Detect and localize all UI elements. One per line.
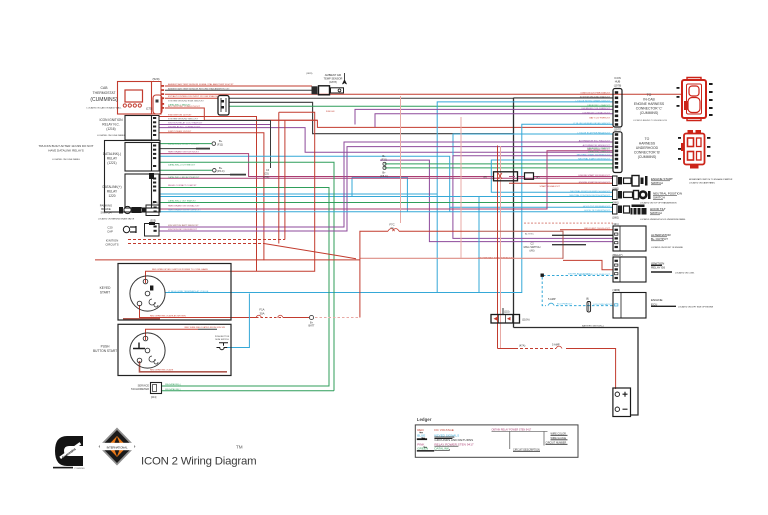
svg-text:IGNITION RELAY COIL 97AW/CKT: IGNITION RELAY COIL 97AW/CKT [168,122,203,125]
svg-text:NEUTRAL POSITION SWITCH RTN/CK: NEUTRAL POSITION SWITCH RTN/CKT [570,194,611,197]
ignition relay labels [613,253,696,275]
svg-text:RELAY CONTACT COM/CKT: RELAY CONTACT COM/CKT [168,184,197,187]
svg-text:DATALINK(+) 98A/CKT: DATALINK(+) 98A/CKT [587,104,610,107]
svg-text:(1882): (1882) [612,217,619,220]
red vertical through 110A connector [497,146,499,349]
svg-text:CIRCUITS: CIRCUITS [105,243,118,247]
mag switch labels [524,242,541,253]
svg-text:Ledger: Ledger [417,417,432,422]
svg-text:RED: RED [417,428,424,432]
svg-text:PARK BRAKE SWITCH IN/CKT: PARK BRAKE SWITCH IN/CKT [168,151,199,154]
svg-text:(P): (P) [536,175,540,179]
svg-text:(110): (110) [504,311,510,314]
svg-text:(1829): (1829) [306,73,313,75]
svg-text:SWITCH: SWITCH [650,211,662,215]
alternator labels [613,222,684,249]
svg-text:LOCATED ON FUSE PANEL: LOCATED ON FUSE PANEL [52,158,81,161]
B+ F11 terminal [212,142,216,146]
svg-text:HAVE DATALINK RELAYS: HAVE DATALINK RELAYS [48,149,83,153]
push start switch face [130,333,165,368]
red connector drawing B [681,130,705,169]
wire red relayNC bottom drop [159,133,264,260]
svg-text:PUSH: PUSH [101,345,111,349]
wire red engine start [509,182,613,184]
svg-text:START: START [100,291,110,295]
svg-text:IN-CAB: IN-CAB [643,98,655,102]
cyan dashed ignition relay [543,275,613,277]
svg-text:DATALINK(-) 98B/CKT: DATALINK(-) 98B/CKT [588,150,611,153]
wire red thermostat pin1 to ambient sensor [165,85,312,87]
svg-text:DATALINK(+) RELAY PWR/CKT: DATALINK(+) RELAY PWR/CKT [168,143,200,146]
svg-text:IGN RELAY CONTACT/CKT: IGN RELAY CONTACT/CKT [583,111,611,114]
svg-text:TM: TM [236,445,243,450]
strip2 right labels [634,137,661,159]
svg-text:IGN RELAY COIL 97AW/CKT: IGN RELAY COIL 97AW/CKT [581,107,610,110]
parking brake cyan [159,211,450,213]
keyed red bottom to fuse and BATT [140,305,257,318]
datalink plus relay [125,174,159,208]
svg-text:TRUCKS BUILT AFTER 11/1/99 DO: TRUCKS BUILT AFTER 11/1/99 DO NOT [38,144,93,148]
svg-text:AMBIENT AIR: AMBIENT AIR [325,73,342,77]
svg-text:CAB: CAB [101,86,109,90]
black stub mag switch [552,244,586,246]
wire green datalink- terminal [159,143,212,145]
wire cyan strip1 from vertical x437 [160,102,613,293]
5 AMP fuse bump bottom [556,346,562,348]
svg-text:RED WIRE RELOCATE: RED WIRE RELOCATE [150,369,174,372]
icon ignition relay box [125,116,159,141]
svg-text:HUB: HUB [615,80,621,84]
svg-text:PUSH BUTTON: PUSH BUTTON [215,336,230,338]
svg-text:LOCATED IN CAB ON BACK WALL: LOCATED IN CAB ON BACK WALL [86,107,122,110]
engine start switch symbol [613,176,648,187]
service tachometer [131,384,149,392]
svg-text:ALT EXC: ALT EXC [525,233,534,236]
svg-text:LOCATED UNDER AT HOOD UNDERSID: LOCATED UNDER AT HOOD UNDERSIDE PANEL [640,218,687,221]
svg-text:GREEN: GREEN [417,447,428,451]
svg-text:HARNESS: HARNESS [639,142,656,146]
svg-text:(CUMMINS): (CUMMINS) [638,155,656,159]
svg-text:(110A): (110A) [522,318,530,322]
parking brake labels [98,204,135,221]
push start red top [146,329,199,340]
wire purple strip2 row3 [380,160,613,242]
battery [613,388,631,417]
svg-text:MOMENTARY SWITCH TO ENGAGE STA: MOMENTARY SWITCH TO ENGAGE STARTER [689,178,733,181]
inline connector near thermostat [218,96,229,116]
red vertical x278 [278,112,280,243]
svg-text:UNDERHOOD: UNDERHOOD [636,146,659,150]
ignition circuits dashed red [128,239,285,241]
svg-text:AMBIENT AIR TEMP SENSOR RETURN: AMBIENT AIR TEMP SENSOR RETURN 97AM AMB/… [168,87,230,90]
cab thermostat box [118,82,163,115]
wire green long run to hub strip1 [229,105,613,107]
wire magenta engine start long [159,177,613,179]
groups get inserted here [95,86,681,415]
svg-text:NEUTRAL START SW RTN/CKT: NEUTRAL START SW RTN/CKT [578,158,611,161]
red long mid horizontal [95,259,360,261]
svg-text:DATALINK(+) RELAY PWR/CKT: DATALINK(+) RELAY PWR/CKT [168,176,200,179]
engine ecu box [613,293,646,319]
wire black thermostat pin2 to ambient sensor [165,89,312,91]
svg-text:[241]: [241] [151,396,157,399]
svg-text:LOCATED ON PARKING BRAKE VALVE: LOCATED ON PARKING BRAKE VALVE [98,218,135,221]
wire magenta P-connector run [159,154,493,177]
svg-text:RED FLEET CHG B+/CKT: RED FLEET CHG B+/CKT [584,228,610,230]
svg-text:98B DATALINK(-): 98B DATALINK(-) [165,388,181,391]
svg-text:ALTERNATOR SENSE/CKT: ALTERNATOR SENSE/CKT [583,144,611,147]
service tachometer box [151,383,162,394]
svg-text:(RELAY): (RELAY) [613,253,623,257]
svg-text:7A: 7A [390,226,394,230]
svg-text:12V PWR MAG SWITCH FEED/CKT: 12V PWR MAG SWITCH FEED/CKT [478,257,515,260]
svg-text:B+: B+ [382,171,386,175]
wire red thermostat pin into inline connector [165,97,218,99]
wire red F7C fuse output [399,230,470,232]
svg-text:BLUE: BLUE [417,433,425,437]
wire cyan neutral row2 [160,197,613,293]
svg-text:START SIGNAL/CKT: START SIGNAL/CKT [539,185,560,188]
hub strip2 [613,132,622,173]
svg-text:98A DATALINK(+): 98A DATALINK(+) [165,383,181,386]
wire green strip2 rows [385,163,614,165]
svg-text:DC VOLTAGE: DC VOLTAGE [434,428,453,432]
svg-text:RELAY: RELAY [107,190,118,194]
B+ terminals [217,139,270,179]
svg-text:INTERNATIONAL: INTERNATIONAL [107,446,128,450]
wire cyan strip1 bottom row from keyed start riser [165,124,613,292]
keyed box bottom dark red [123,318,160,320]
svg-text:TACHOMETER: TACHOMETER [131,387,149,391]
svg-text:(F5-C): (F5-C) [380,174,388,178]
svg-text:NEUTRAL POSITION SWITCH SIG/CK: NEUTRAL POSITION SWITCH SIG/CKT [570,190,610,193]
svg-text:BATT: BATT [309,325,315,328]
svg-text:HOOD TILT SW FEED/CKT: HOOD TILT SW FEED/CKT [583,206,611,208]
svg-text:AMBIENT AIR TEMP SENSOR SIGNAL: AMBIENT AIR TEMP SENSOR SIGNAL 97AL AMB … [168,83,234,86]
svg-text:DATALINK(+): DATALINK(+) [102,185,121,189]
pale pink verticals [400,96,402,223]
svg-text:HOOD TILT SW RTN/CKT: HOOD TILT SW RTN/CKT [584,210,610,212]
svg-text:EXT/AUTO INTERLOCK INPUT 12V I: EXT/AUTO INTERLOCK INPUT 12V IGN 97AE/CK… [168,95,220,98]
svg-text:LT BLUE ECM PWR RELAY/CKT: LT BLUE ECM PWR RELAY/CKT [578,132,611,135]
svg-text:DATALINK(+) OUT 98A/CKT: DATALINK(+) OUT 98A/CKT [168,200,196,203]
svg-text:RED WIRE RELOCATED FROM IGN SW: RED WIRE RELOCATED FROM IGN SW [185,326,226,329]
bus bottom run to battery drop [514,328,639,416]
red dashes top alternator [524,222,613,224]
svg-text:DATALINK(-): DATALINK(-) [103,152,121,156]
svg-text:(1221): (1221) [107,161,116,165]
svg-text:(8): (8) [586,298,589,301]
parking brake switch symbol [119,205,159,216]
c20 labels [107,226,113,234]
svg-text:RED WIRE RELOCATE AS SHOWN: RED WIRE RELOCATE AS SHOWN [150,314,186,317]
keyed start switch face [130,276,165,311]
svg-text:SYSTEM GROUND 97AK/CKT: SYSTEM GROUND 97AK/CKT [580,95,611,98]
svg-text:5 AMP: 5 AMP [548,297,556,301]
cyan dashed ecu with 5amp [542,277,546,306]
push button start box [118,324,231,375]
red vertical x284 from thermostat row [284,120,286,239]
svg-text:(F11): (F11) [381,158,387,162]
svg-text:ENGINE START MOM SIG/CKT: ENGINE START MOM SIG/CKT [579,181,611,184]
svg-text:(525): (525) [150,219,156,223]
push button symbol [217,343,229,350]
datalink minus relay [125,143,159,172]
svg-text:DATALINK(-) OUT 98B/CKT: DATALINK(-) OUT 98B/CKT [168,164,196,167]
svg-text:SYSTEM GROUND GND-CKT: SYSTEM GROUND GND-CKT [168,119,199,121]
svg-text:(C5A): (C5A) [263,176,269,179]
svg-text:BATTERY SWITCH(+): BATTERY SWITCH(+) [582,324,604,327]
svg-text:ICON: ICON [614,76,621,80]
pale dashed battery feed [315,317,360,319]
svg-text:SWITCH: SWITCH [100,211,111,215]
B+ F5C terminal [213,169,217,173]
svg-text:LOCATED ON TOP OF TRANSMISSION: LOCATED ON TOP OF TRANSMISSION [640,202,677,205]
small fuse capsule near ecu [548,302,591,313]
svg-text:(F5-C): (F5-C) [217,169,225,173]
wire black from inline connector to main bus top [229,97,514,99]
svg-text:LT BLUE WIRE TERMINATE AT LT B: LT BLUE WIRE TERMINATE AT LT BLUE [168,290,209,293]
svg-text:(A6): (A6) [530,249,535,253]
hub strip labels [614,76,622,132]
svg-text:(1977): (1977) [614,128,622,132]
svg-text:(974): (974) [152,201,158,205]
svg-text:LT BLUE KEYED CRANK SIG/CKT: LT BLUE KEYED CRANK SIG/CKT [576,99,611,102]
ambient air temp sensor [312,73,347,95]
svg-text:1220: 1220 [108,194,115,198]
svg-text:BUTTON START: BUTTON START [93,349,117,353]
svg-text:ECU PWR/CKT: ECU PWR/CKT [557,304,573,306]
svg-text:(F11): (F11) [217,142,223,146]
svg-text:C2: C2 [530,242,534,246]
ignition circuits label [105,239,118,247]
black stub alternator [552,234,613,236]
wire green datalink- row [159,162,334,390]
bus to strip1 [514,97,614,99]
ambient sensor labels [324,73,343,84]
red dashed bottom fuse run to battery [498,348,516,350]
svg-text:LOCATED ON DASH PANEL: LOCATED ON DASH PANEL [689,182,716,185]
svg-text:B+: B+ [382,154,386,158]
svg-text:(CUMMINS): (CUMMINS) [640,111,658,115]
svg-text:(121): (121) [613,222,619,226]
svg-text:DATALINK(+) 98A/CKT: DATALINK(+) 98A/CKT [168,103,191,106]
svg-text:ENGINE HARNESS: ENGINE HARNESS [634,102,665,106]
svg-text:ENGINE START SW FEED/CKT: ENGINE START SW FEED/CKT [579,174,611,177]
svg-text:CONNECTOR 'C': CONNECTOR 'C' [636,107,663,111]
ignition relay box [613,257,646,282]
wire purple relayNC to strip1 row [159,109,613,127]
wire purple strip2 rows long [453,156,613,239]
wire magenta c20 drops to alternator [159,142,613,227]
push start black link to button [198,328,217,330]
black square node [541,274,544,277]
svg-text:30A: 30A [260,312,265,316]
P inline connector pair [494,172,534,181]
svg-text:CAP: CAP [107,230,113,234]
svg-text:(529): (529) [152,77,159,81]
svg-text:RELAY: RELAY [107,157,118,161]
F1A fuse labels [259,308,315,328]
switch labels [640,177,733,221]
svg-text:(47A): (47A) [519,344,525,348]
svg-text:RELAY E6: RELAY E6 [651,266,665,270]
svg-text:LOCATED ON FRONT OF ENGINE: LOCATED ON FRONT OF ENGINE [651,246,683,249]
keyed start red top [146,112,315,283]
cummins logo [53,436,85,470]
C20 connector symbol [123,222,159,236]
icon ignition relay labels [97,118,126,137]
svg-text:DATALINK(+) 98A/CKT: DATALINK(+) 98A/CKT [587,147,610,150]
svg-text:LOCATED ON FUSE PANEL: LOCATED ON FUSE PANEL [97,134,126,137]
wire green datalink+ terminal [159,169,212,171]
svg-text:97A IGN: 97A IGN [326,110,335,113]
hood tilt switch symbol [613,205,647,215]
cab thermostat connector pins [156,85,165,109]
F7C fuse bump [388,229,399,232]
svg-text:SERVICE: SERVICE [138,384,150,388]
svg-text:LOCATED ON COWL: LOCATED ON COWL [675,272,695,275]
svg-text:PARK BRAKE SW SIGNAL/CKT: PARK BRAKE SW SIGNAL/CKT [168,205,200,208]
datalink outer box [105,141,161,213]
engine ecu labels [613,288,714,309]
svg-text:MAG SWITCH: MAG SWITCH [524,245,541,249]
svg-text:IGN SWITCH BATT FEED/CKT: IGN SWITCH BATT FEED/CKT [168,224,199,227]
svg-text:(1978): (1978) [614,84,622,88]
ledger legend box [415,417,578,458]
alternator box [613,226,646,251]
wire cyan strip2 row1 [352,134,613,212]
svg-text:ALTERNATOR EXC FIELD/CKT: ALTERNATOR EXC FIELD/CKT [579,140,611,143]
BATT terminal circle [309,315,313,319]
cyan push button riser [227,294,249,348]
svg-text:(1878): (1878) [329,80,337,84]
F7C fuse labels [389,223,394,230]
svg-text:ICON IGNITION: ICON IGNITION [99,118,123,122]
svg-text:97A IGNITION 12V/CKT: 97A IGNITION 12V/CKT [168,114,192,117]
wire red thermostat pin6 [165,108,613,127]
svg-text:CONNECTOR 'B': CONNECTOR 'B' [634,151,661,155]
svg-text:97AT POWER 12V/CKT: 97AT POWER 12V/CKT [168,130,192,133]
svg-text:(1881): (1881) [612,202,619,205]
main black bus vertical [513,98,515,328]
keyed start box [118,264,231,321]
international logo [99,428,136,466]
svg-text:(1880): (1880) [612,188,619,191]
wire dark red to pale vertical x563 [470,231,563,259]
cab thermostat labels [86,86,122,110]
110A inline connector [491,315,520,324]
svg-text:NEUTRAL START SW FEED/CKT: NEUTRAL START SW FEED/CKT [577,154,611,157]
svg-text:(P): (P) [484,175,488,179]
svg-text:IGN RELAY COIL/CKT: IGN RELAY COIL/CKT [568,272,591,275]
svg-text:ENGINE: ENGINE [651,298,663,302]
push red bottom [140,361,228,372]
svg-text:MOM SWITCH: MOM SWITCH [215,339,229,341]
svg-text:5 AMP: 5 AMP [552,343,560,347]
wire red long run to red connector C [165,93,681,95]
svg-text:TO: TO [645,137,650,141]
wire black datalink rows [159,148,210,150]
svg-text:(CUMMINS): (CUMMINS) [90,97,118,103]
svg-text:SYSTEM GROUND 97AK GND/CKT: SYSTEM GROUND 97AK GND/CKT [168,99,204,102]
strip1 right labels [634,93,665,115]
F1A 30A fuse bump [256,315,283,317]
svg-text:IGN RELAY N.C. CONTACT/CKT: IGN RELAY N.C. CONTACT/CKT [168,126,201,129]
svg-text:ECU PWR 5A/CKT: ECU PWR 5A/CKT [593,303,612,306]
svg-text:OBTAIN RELAY POWER STEN 9417: OBTAIN RELAY POWER STEN 9417 [492,429,532,432]
red diagonal to F7C fuse [264,244,356,259]
svg-text:ICON 2 Wiring Diagram: ICON 2 Wiring Diagram [141,456,256,468]
wire black sensor drop to bus [229,102,514,133]
svg-text:THERMOSTAT: THERMOSTAT [93,91,116,95]
wire black relayNC long [159,121,271,169]
B+ mid labels [380,154,388,178]
svg-text:RELAY N.C.: RELAY N.C. [102,123,120,127]
svg-text:RED WIRE KEYED IGNITION POWER: RED WIRE KEYED IGNITION POWER TO COWL HA… [152,268,208,271]
wire red strip1 row8 [159,117,257,272]
wire cyan strip2 lower rows [159,156,613,211]
svg-text:LOCATED ON LEFT SIDE OF ENGINE: LOCATED ON LEFT SIDE OF ENGINE [678,306,714,309]
svg-text:[C75]: [C75] [146,107,152,111]
svg-text:IGNITION 12V PWR 97A/CKT: IGNITION 12V PWR 97A/CKT [581,91,611,94]
wire purple relayNC2 to strip1 row [159,128,613,153]
svg-text:SWITCH: SWITCH [653,196,665,200]
svg-text:LT BLUE IGN FEED KEYED SW/CKT: LT BLUE IGN FEED KEYED SW/CKT [573,123,610,125]
hub strip1 [613,89,622,128]
tiny wire labels: right side strip1 [581,91,611,230]
svg-text:SWITCH: SWITCH [651,181,663,185]
keyed start [93,286,117,353]
svg-text:B+ OUTPUT: B+ OUTPUT [651,237,668,241]
svg-text:(1986): (1986) [613,288,621,292]
wire green datalink+ long to tach loop [159,202,613,204]
svg-text:POWERED: POWERED [75,468,86,470]
wire red long to strip1 [257,119,318,121]
red riser from BATT dash to F7C row [360,231,388,317]
tiny wire labels: thermostat right [168,83,234,133]
neutral position switch symbol [613,190,651,200]
svg-text:KEYED: KEYED [100,286,112,290]
svg-text:IGNITION KEY SW RUN/CKT: IGNITION KEY SW RUN/CKT [168,229,198,231]
svg-text:TEMP SENSOR: TEMP SENSOR [324,77,343,81]
svg-text:LOCATED BEHIND TO ENGINE ECM: LOCATED BEHIND TO ENGINE ECM [633,119,667,122]
svg-text:BATT 12V PWR/CKT: BATT 12V PWR/CKT [589,116,610,119]
red dashed into alternator [560,229,613,231]
wire green tach second loop [162,390,335,392]
svg-text:PARK BRAKE SW RETURN/CKT: PARK BRAKE SW RETURN/CKT [168,209,201,212]
red link into ignition relay [563,260,613,269]
red connector drawing C [682,78,706,121]
svg-text:TO: TO [647,93,652,97]
wire magenta engine start [159,151,613,209]
datalink labels [102,152,121,198]
svg-text:(1216): (1216) [106,127,115,131]
